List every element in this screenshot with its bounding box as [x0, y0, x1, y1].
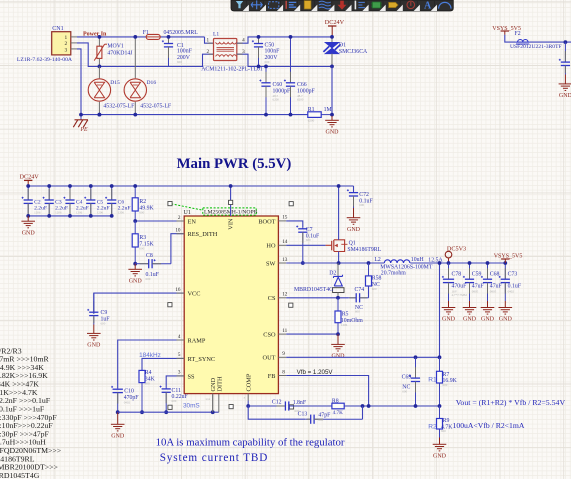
svg-text:4.7*7.7MM: 4.7*7.7MM: [452, 293, 467, 297]
svg-text:C72: C72: [359, 192, 369, 198]
PE chassis ground symbol: [80, 115, 82, 120]
junction C2 bottom: [26, 214, 30, 218]
svg-text:3: 3: [178, 370, 181, 376]
svg-text:1206: 1206: [55, 210, 62, 214]
toolbar icon move cross: [251, 0, 262, 9]
svg-text:2: 2: [207, 49, 210, 55]
capacitor C5 2.2uF: [90, 186, 92, 200]
green dashed leader line: [171, 204, 203, 210]
junction PE tap on rail: [79, 113, 83, 117]
ground GND (C59): [469, 301, 471, 308]
pin 11 CSO: [278, 333, 286, 335]
resistor R7 16.9K: [439, 357, 441, 371]
green selection dashed box around part number: [203, 208, 256, 215]
svg-text:14: 14: [282, 239, 288, 245]
pin 8 FB: [278, 375, 286, 377]
pin 10 RES_DITH: [177, 233, 185, 235]
junction VIN on rail: [229, 184, 233, 188]
svg-text:C78: C78: [452, 272, 462, 278]
capacitor C (top right): [564, 42, 566, 62]
svg-text:F1: F1: [143, 30, 149, 36]
junction C10 bottom on ss rail: [116, 410, 120, 414]
svg-text:1206: 1206: [76, 210, 83, 214]
capacitor C50: [258, 37, 260, 44]
capacitor C74 NC: [348, 297, 356, 299]
op-amp U1 regulator LM25085MH-1/NOPB body: [184, 216, 278, 394]
capacitor C59 47uF: [469, 263, 471, 279]
selection handles: [168, 202, 172, 206]
svg-text:5: 5: [178, 352, 181, 358]
svg-text:System current TBD: System current TBD: [160, 452, 269, 464]
wire 5V rail: [410, 262, 505, 264]
junction R58 top on SW: [367, 261, 371, 265]
svg-text:GND: GND: [481, 317, 495, 323]
junction C50 bottom: [257, 65, 261, 69]
junction R1 right to gnd column: [330, 113, 334, 117]
svg-text:9: 9: [282, 351, 285, 357]
varistor MOV1: [98, 37, 100, 46]
svg-text:600: 600: [265, 60, 270, 64]
svg-text:4532-075-LF: 4532-075-LF: [103, 104, 135, 110]
resistor R8 4.7K: [290, 405, 332, 407]
inductor L2 MWSA1206S-100MT: [384, 260, 410, 263]
svg-text:600: 600: [318, 418, 323, 422]
capacitor C1: [168, 37, 170, 44]
svg-text:CS: CS: [268, 295, 276, 302]
svg-text:600: 600: [402, 389, 407, 393]
svg-text:R9: R9: [443, 418, 450, 424]
junction C60 top: [264, 65, 268, 69]
svg-text:C7: C7: [306, 227, 313, 233]
svg-text:600: 600: [139, 210, 144, 214]
pin 2 EN: [177, 220, 185, 222]
svg-text:600: 600: [372, 287, 377, 291]
junction C59 top: [468, 261, 472, 265]
svg-text:470KD14J: 470KD14J: [107, 51, 133, 57]
svg-text:D2: D2: [329, 270, 336, 276]
svg-text:0805: 0805: [490, 289, 497, 293]
svg-text:C3: C3: [55, 199, 62, 205]
pin 4 RAMP: [177, 339, 185, 341]
svg-text:SW: SW: [266, 260, 276, 267]
connector CN1: [52, 32, 71, 55]
toolbar icon sheet yellow: [389, 2, 398, 7]
common-mode choke L1: [214, 39, 237, 61]
capacitor C9 1uF: [93, 293, 95, 312]
svg-text:DC24V: DC24V: [20, 174, 40, 181]
capacitor C69 NC: [415, 357, 417, 378]
junction R2 top on rail: [133, 184, 137, 188]
junction D16 bottom on PE rail: [133, 113, 137, 117]
TVS diode D1 SMCJ36CA: [331, 37, 333, 43]
svg-text:1.8nF: 1.8nF: [293, 400, 307, 406]
svg-text:SMCJ36CA: SMCJ36CA: [339, 49, 368, 55]
svg-text:Vout = (R1+R2) * Vfb / R2=5.54: Vout = (R1+R2) * Vfb / R2=5.54V: [456, 398, 566, 407]
svg-text:xxx: xxx: [206, 397, 211, 401]
svg-text:10: 10: [175, 228, 181, 234]
pin 13 SW: [278, 262, 286, 264]
svg-text:C13: C13: [298, 412, 308, 418]
svg-text:Q1: Q1: [349, 241, 356, 247]
svg-text:C4: C4: [76, 199, 83, 205]
junction C13 top tap: [361, 404, 365, 408]
svg-text:C69: C69: [402, 374, 412, 380]
svg-text:DC24V: DC24V: [325, 19, 345, 26]
junction C7 bottom on SW: [301, 261, 305, 265]
junction IC gnd pin on ss rail: [211, 410, 215, 414]
svg-text:R8: R8: [332, 398, 339, 404]
wire HO to gate: [286, 244, 325, 246]
svg-text:4.7K: 4.7K: [333, 410, 343, 416]
svg-text:16: 16: [175, 287, 181, 293]
junction MOV1 bottom on neutral rail: [98, 65, 102, 69]
svg-text:PE: PE: [80, 127, 89, 133]
svg-text:600: 600: [146, 277, 151, 281]
capacitor C4 2.2uF: [69, 186, 71, 200]
svg-text:1M: 1M: [324, 107, 332, 113]
junction C6 top: [110, 184, 114, 188]
wire rail corner to C72: [353, 186, 355, 191]
wire BOOT to C7: [286, 221, 303, 227]
junction R4 bottom on ss rail: [140, 410, 144, 414]
capacitor C7 0.1uF: [302, 227, 304, 229]
resistor R58 NC: [368, 263, 370, 276]
transistor Q1 SM4186T9RL (P-MOSFET): [326, 244, 332, 246]
svg-text:600: 600: [101, 321, 106, 325]
svg-text:ACM1211-102-2PL-TL01: ACM1211-102-2PL-TL01: [201, 66, 263, 72]
wire L1 pin3 to mid rail right: [237, 54, 332, 66]
svg-text:GND: GND: [559, 93, 571, 99]
svg-text:VIN: VIN: [228, 218, 235, 230]
svg-text:600: 600: [359, 203, 364, 207]
wire OUT: [286, 356, 439, 358]
svg-text:0452005.MRL: 0452005.MRL: [164, 30, 199, 36]
toolbar icon part yellow: [304, 1, 311, 9]
wire COMP network top: [212, 394, 214, 413]
svg-text:600: 600: [355, 310, 360, 314]
junction C11 bottom on ss rail: [164, 410, 168, 414]
svg-text:MOV1: MOV1: [107, 44, 124, 50]
svg-text:GND: GND: [332, 354, 346, 360]
junction C6 bottom: [110, 214, 114, 218]
svg-text:R1: R1: [428, 376, 437, 383]
svg-text:GND: GND: [22, 230, 36, 236]
svg-text:6200: 6200: [308, 119, 315, 123]
resistor R1 1M: [306, 114, 308, 116]
svg-text:0805: 0805: [472, 289, 479, 293]
capacitor C68 47uF: [487, 263, 489, 279]
resistor R2 49.9K: [134, 186, 136, 198]
gas discharge tube D15: [98, 66, 100, 78]
svg-text:13: 13: [282, 257, 288, 263]
junction C60 bottom: [264, 113, 268, 117]
svg-text:R7: R7: [443, 372, 450, 378]
svg-text:RES_DITH: RES_DITH: [188, 231, 218, 238]
wire mid rail N (neutral): [77, 43, 214, 67]
ground GND (input caps): [27, 216, 29, 221]
svg-text:GND: GND: [129, 279, 143, 285]
wire PE rail: [77, 49, 307, 115]
svg-text:4532-075-LF: 4532-075-LF: [140, 104, 172, 110]
junction EN divider node: [133, 219, 137, 223]
wire C8 to RES_DITH: [171, 234, 184, 264]
svg-text:600: 600: [145, 381, 150, 385]
svg-text:C60: C60: [273, 82, 283, 88]
svg-text:8: 8: [282, 369, 285, 375]
toolbar icon align: [285, 1, 287, 9]
junction C4 top: [68, 184, 72, 188]
ground GND (top right): [564, 75, 566, 84]
svg-text:C6: C6: [118, 199, 125, 205]
pin 12 CS: [278, 297, 286, 299]
junction D15 bottom on PE rail: [98, 113, 102, 117]
toolbar: [231, 0, 453, 11]
svg-text:C68: C68: [490, 272, 500, 278]
wire VIN top rail: [28, 185, 353, 187]
svg-text:Main PWR (5.5V): Main PWR (5.5V): [177, 156, 292, 172]
fuse F1: [146, 34, 160, 39]
capacitor C8 0.1uF: [135, 263, 149, 265]
capacitor C66: [290, 37, 292, 83]
wire EN: [135, 220, 184, 222]
junction C50 top: [257, 35, 261, 39]
svg-text:10A is maximum capability of t: 10A is maximum capability of the regulat…: [156, 436, 345, 448]
wire VIN bottom rail (caps): [28, 215, 112, 217]
junction MOV1 top on line rail: [98, 35, 102, 39]
svg-text:0402: 0402: [124, 400, 131, 404]
capacitor C11 0.22uF: [165, 388, 167, 389]
svg-text:L1: L1: [213, 32, 219, 38]
wire FB: [286, 376, 368, 407]
wire RT_SYNC: [142, 358, 184, 370]
toolbar icon arc: [439, 2, 451, 8]
svg-text:2: 2: [64, 41, 67, 47]
toolbar icon no-erc: [407, 1, 415, 9]
svg-text:HO: HO: [266, 243, 276, 250]
svg-text:R3: R3: [139, 235, 146, 241]
svg-text:SM4186T9RL: SM4186T9RL: [347, 247, 381, 253]
svg-text:GND: GND: [326, 130, 340, 136]
junction C2 top: [26, 184, 30, 188]
svg-text:D16: D16: [147, 80, 157, 86]
svg-text:DITH: DITH: [216, 376, 223, 391]
ground GND (CSO): [337, 334, 339, 344]
pin 15 BOOT: [278, 220, 286, 222]
svg-text:1206: 1206: [341, 323, 348, 327]
svg-text:10uH: 10uH: [411, 257, 425, 263]
fuse F2: [515, 41, 530, 43]
junction C68 top: [486, 261, 490, 265]
junction D1 bottom node: [330, 65, 334, 69]
svg-text:R4: R4: [145, 370, 152, 376]
svg-text:C2: C2: [34, 199, 41, 205]
junction D16 top on line rail: [133, 35, 137, 39]
junction 5V feed tap: [438, 261, 442, 265]
svg-text:R5: R5: [342, 312, 349, 318]
wire top rail L (line): [77, 36, 146, 38]
svg-text:600: 600: [172, 399, 177, 403]
svg-text:R1: R1: [308, 107, 315, 113]
svg-text:COMP: COMP: [246, 373, 253, 391]
capacitor C13 47pF: [305, 418, 311, 420]
svg-text:C66: C66: [297, 82, 307, 88]
junction C1 top: [167, 35, 171, 39]
svg-text:VCC: VCC: [188, 291, 201, 298]
toolbar icon red arrow: [338, 1, 347, 10]
svg-text:1206: 1206: [97, 210, 104, 214]
junction COMP node: [246, 404, 250, 408]
junction R7 top on OUT: [438, 355, 442, 359]
svg-text:C59: C59: [472, 272, 482, 278]
ground GND (C73): [504, 301, 506, 308]
svg-text:C12: C12: [272, 400, 282, 406]
wire IC DITH pin stub: [218, 394, 220, 413]
wire RAMP: [118, 340, 185, 388]
svg-text:6200: 6200: [273, 97, 280, 101]
svg-text:D1: D1: [339, 42, 346, 48]
junction R3 bottom node: [133, 262, 137, 266]
svg-text:0402: 0402: [508, 289, 515, 293]
junction C5 bottom: [89, 214, 93, 218]
svg-text:C74: C74: [355, 287, 365, 293]
diode D2 MBRD1045T4G: [337, 263, 339, 276]
svg-text:GND: GND: [442, 317, 456, 323]
svg-text:C5: C5: [97, 199, 104, 205]
svg-text:4: 4: [242, 38, 245, 44]
svg-text:FB: FB: [268, 373, 276, 380]
svg-text:USF2012U221-3R0TF: USF2012U221-3R0TF: [510, 44, 562, 50]
svg-text:L2: L2: [374, 257, 381, 263]
capacitor C78 470uF: [448, 263, 450, 279]
wire IC GND pin stub: [212, 394, 214, 413]
toolbar icon filter funnel: [236, 1, 243, 8]
wire F2 to right edge: [530, 41, 571, 43]
pin 14 HO: [278, 244, 286, 246]
svg-text:BOOT: BOOT: [258, 218, 275, 225]
svg-text:100nF: 100nF: [177, 49, 193, 55]
toolbar icon selection rect: [269, 2, 279, 9]
wire COMP network bottom branch: [248, 406, 305, 419]
wire VSYS to F2: [505, 35, 516, 42]
svg-text:LZ1R-7.62-39-140-00A: LZ1R-7.62-39-140-00A: [17, 57, 73, 63]
wire CSO: [286, 333, 338, 335]
junction R7/R9 node: [438, 404, 442, 408]
svg-text:2: 2: [178, 215, 181, 221]
svg-text:C11: C11: [172, 388, 182, 394]
svg-text:RT_SYNC: RT_SYNC: [188, 356, 216, 363]
gas discharge tube D16: [134, 37, 136, 78]
junction C69 bottom: [414, 404, 418, 408]
junction C73 top: [503, 261, 507, 265]
svg-text:SS: SS: [188, 373, 196, 380]
svg-text:GND: GND: [499, 317, 513, 323]
pin 16 VCC: [177, 292, 185, 294]
svg-text:184kHz: 184kHz: [139, 352, 161, 359]
ground GND (C9): [93, 325, 95, 334]
capacitor C10 470pF: [117, 387, 119, 390]
capacitor C73 0.1uF: [504, 263, 506, 279]
svg-text:CSO: CSO: [263, 332, 276, 339]
wire R8 to divider: [344, 405, 439, 407]
svg-text:30mS: 30mS: [183, 403, 200, 410]
svg-text:C73: C73: [508, 272, 518, 278]
wire SW node: [286, 262, 384, 264]
wire D1 bottom to GND: [331, 66, 333, 116]
ground GND (C68): [487, 301, 489, 308]
pin 9 OUT: [278, 356, 286, 358]
svg-text:1206: 1206: [34, 210, 41, 214]
svg-text:1: 1: [64, 35, 67, 41]
ground GND (C72): [353, 208, 355, 218]
svg-text:U1: U1: [184, 210, 191, 216]
svg-text:20.7mohm: 20.7mohm: [381, 271, 406, 277]
junction cap tap top right: [564, 40, 568, 44]
capacitor C3 2.2uF: [48, 186, 50, 200]
toolbar icon dimension: [354, 1, 356, 10]
svg-text:R2: R2: [428, 424, 437, 431]
junction C4 bottom: [68, 214, 72, 218]
junction C66 top: [289, 35, 293, 39]
svg-text:1206: 1206: [118, 210, 125, 214]
ground GND (R9): [439, 438, 441, 445]
ground GND (input return): [331, 116, 333, 120]
pin VIN (top): [230, 186, 232, 216]
resistor R3 7.15K: [134, 221, 136, 234]
junction C5 top: [89, 184, 93, 188]
svg-text:C8: C8: [146, 253, 153, 259]
svg-text:C50: C50: [265, 42, 275, 48]
svg-text:C9: C9: [101, 310, 108, 316]
svg-text:600: 600: [443, 383, 448, 387]
junction CS / D2 / R5 node: [336, 296, 340, 300]
resistor R9 4.7K: [439, 406, 441, 419]
wire L1 pin4 to D1: [237, 37, 332, 43]
svg-text:CN1: CN1: [52, 26, 63, 32]
wire COMP stub: [247, 394, 249, 401]
svg-text:MBRD1045T4G: MBRD1045T4G: [294, 287, 333, 293]
svg-text:R2: R2: [139, 199, 146, 205]
svg-text:OUT: OUT: [263, 355, 276, 362]
capacitor C2 2.2uF: [27, 186, 29, 200]
pin 5 RT_SYNC: [177, 357, 185, 359]
svg-text:100uA<Vfb / R2<1mA: 100uA<Vfb / R2<1mA: [453, 421, 525, 430]
toolbar icon wires wavy: [319, 1, 331, 9]
ground GND (C78): [448, 301, 450, 308]
svg-text:15: 15: [282, 215, 288, 221]
ground GND (R3/C8): [134, 264, 136, 270]
svg-text:600: 600: [139, 246, 144, 250]
wire CS: [286, 297, 348, 299]
junction C66 bottom: [289, 113, 293, 117]
pin 3 SS: [177, 375, 185, 377]
svg-text:RAMP: RAMP: [188, 337, 206, 344]
wire C13 up to comp wire: [362, 406, 364, 419]
junction Q1 drain on VIN rail: [337, 184, 341, 188]
svg-text:EN: EN: [188, 218, 197, 225]
junction SW / Q1 / D2 node: [337, 261, 341, 265]
svg-text:C10: C10: [124, 388, 134, 394]
capacitor C72 0.1uF: [353, 191, 355, 193]
toolbar icon chip green: [372, 2, 380, 8]
junction D1 top node DC24V: [330, 35, 334, 39]
svg-text:GND: GND: [347, 227, 361, 233]
wire 5V feed down to output divider: [439, 263, 441, 357]
capacitor C60: [265, 66, 267, 82]
svg-text:100nF: 100nF: [265, 49, 281, 55]
svg-text:GND: GND: [111, 434, 125, 440]
svg-text:600: 600: [306, 238, 311, 242]
svg-text:F2: F2: [515, 31, 521, 37]
